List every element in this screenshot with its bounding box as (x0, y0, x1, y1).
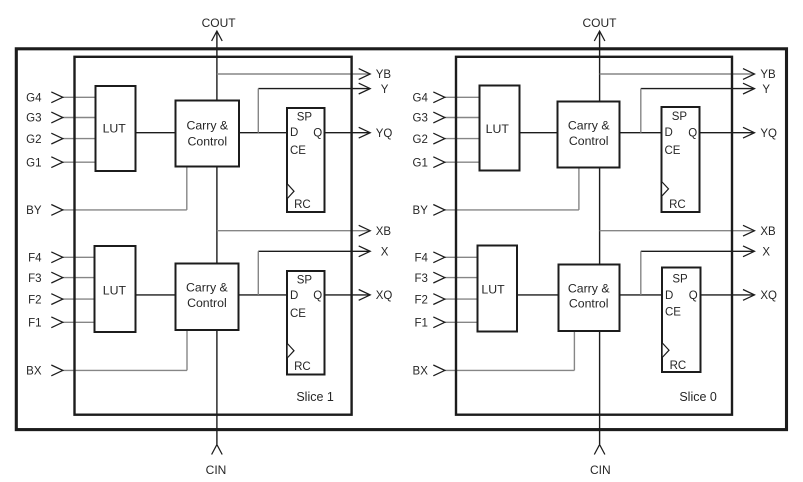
svg-text:D: D (665, 290, 673, 302)
svg-text:D: D (290, 290, 298, 302)
label F1 (Slice 0) (414, 318, 427, 330)
clock triangle (Slice 0 lower FF) (663, 343, 669, 357)
wire input F2 (Slice 1) (62, 298, 97, 300)
flip-flop lower (Slice 1) (287, 271, 325, 375)
wire Carry to FF D lower (Slice 0) (618, 294, 665, 296)
label F1 (Slice 1) (28, 318, 41, 330)
label COUT (Slice 0) (583, 16, 618, 30)
wire X horizontal (Slice 0) (641, 250, 754, 252)
svg-text:X: X (762, 247, 770, 259)
label G3 (Slice 1) (26, 113, 41, 125)
label CE pin (Slice 1 lower FF) (290, 308, 306, 320)
wire input G2 (Slice 1) (62, 138, 98, 140)
output arrow XB (Slice 0) (743, 225, 755, 236)
label RC pin (Slice 1 upper FF) (294, 199, 311, 211)
svg-text:Control: Control (569, 134, 609, 148)
label XQ (Slice 0) (760, 290, 777, 302)
svg-text:CE: CE (665, 145, 681, 157)
svg-text:Carry &: Carry & (186, 281, 228, 295)
svg-text:Q: Q (689, 290, 698, 302)
CIN arrowhead (Slice 1) (212, 445, 223, 455)
label Slice 0 (679, 390, 717, 404)
wire Y vertical (Slice 0) (640, 89, 642, 133)
svg-text:XQ: XQ (760, 290, 777, 302)
label LUT lower (Slice 1) (103, 284, 127, 298)
wire input BX horizontal (Slice 0) (444, 369, 575, 371)
svg-text:SP: SP (297, 111, 313, 123)
label G3 (Slice 0) (413, 113, 428, 125)
label Y (Slice 0) (762, 84, 770, 96)
wire FF Q to YQ (Slice 0) (698, 132, 755, 134)
label SP pin (Slice 1 lower FF) (297, 274, 313, 286)
svg-text:Slice 1: Slice 1 (296, 390, 334, 404)
label D pin (Slice 1 upper FF) (290, 127, 298, 139)
svg-text:G2: G2 (413, 134, 428, 146)
label D pin (Slice 0 upper FF) (665, 127, 673, 139)
input arrow G4 (Slice 0) (433, 92, 445, 103)
label X (Slice 1) (381, 247, 389, 259)
label CE pin (Slice 1 upper FF) (290, 145, 306, 157)
label LUT lower (Slice 0) (481, 283, 505, 297)
wire input G1 (Slice 0) (444, 161, 482, 163)
Carry &amp; Control lower (Slice 1) (176, 264, 239, 331)
svg-text:Q: Q (313, 290, 322, 302)
wire input G4 (Slice 0) (444, 96, 482, 98)
svg-text:RC: RC (669, 199, 686, 211)
label RC pin (Slice 0 upper FF) (669, 199, 686, 211)
output arrow Y (Slice 0) (743, 83, 755, 94)
output arrow X (Slice 1) (359, 246, 371, 257)
Carry &amp; Control upper (Slice 1) (176, 101, 240, 167)
flip-flop upper (Slice 0) (662, 107, 700, 212)
input arrow F3 (Slice 1) (51, 272, 63, 283)
wire input BY horizontal (Slice 1) (62, 209, 187, 211)
output arrow XB (Slice 1) (359, 225, 371, 236)
label Q pin (Slice 0 lower FF) (689, 290, 698, 302)
wire input BX vertical (Slice 1) (186, 329, 188, 370)
label Carry &amp; Control lower (Slice 1) (186, 281, 228, 310)
wire input F4 (Slice 0) (444, 256, 480, 258)
input arrow BY (Slice 0) (433, 205, 445, 216)
wire CIN carry chain bottom (Slice 1) (216, 330, 218, 444)
input arrow G4 (Slice 1) (51, 92, 63, 103)
label F3 (Slice 0) (414, 273, 427, 285)
label YQ (Slice 0) (760, 128, 777, 140)
wire input F3 (Slice 0) (444, 277, 480, 279)
label CE pin (Slice 0 upper FF) (665, 145, 681, 157)
input arrow BY (Slice 1) (51, 205, 63, 216)
svg-text:LUT: LUT (486, 122, 510, 136)
svg-text:XQ: XQ (376, 290, 393, 302)
Carry &amp; Control lower (Slice 0) (559, 265, 620, 332)
input arrow F2 (Slice 1) (51, 294, 63, 305)
input arrow BX (Slice 1) (51, 365, 63, 376)
label F2 (Slice 0) (414, 294, 427, 306)
svg-text:Y: Y (762, 84, 770, 96)
svg-text:G4: G4 (413, 93, 429, 105)
svg-text:COUT: COUT (583, 16, 618, 30)
label Slice 1 (296, 390, 334, 404)
svg-text:G1: G1 (413, 157, 428, 169)
input arrow BX (Slice 0) (433, 365, 445, 376)
LUT upper (Slice 1) (96, 86, 136, 171)
svg-text:G1: G1 (26, 157, 41, 169)
label G1 (Slice 1) (26, 157, 41, 169)
wire CIN carry chain bottom (Slice 0) (599, 330, 601, 444)
label BY (Slice 0) (413, 205, 429, 217)
flip-flop upper (Slice 1) (287, 108, 325, 212)
label CE pin (Slice 0 lower FF) (665, 307, 681, 319)
label Carry &amp; Control lower (Slice 0) (568, 282, 610, 311)
wire input BX vertical (Slice 0) (573, 330, 575, 370)
output arrow YB (Slice 0) (743, 69, 755, 80)
output arrow X (Slice 0) (743, 246, 755, 257)
svg-text:CE: CE (665, 307, 681, 319)
svg-text:F4: F4 (28, 253, 42, 265)
label F2 (Slice 1) (28, 294, 41, 306)
label SP pin (Slice 1 upper FF) (297, 111, 313, 123)
COUT arrow (Slice 1) (212, 31, 223, 41)
input arrow F1 (Slice 0) (433, 317, 445, 328)
wire LUT to Carry lower (Slice 0) (515, 294, 561, 296)
svg-text:Slice 0: Slice 0 (679, 390, 717, 404)
wire input G1 (Slice 1) (62, 161, 98, 163)
svg-text:F1: F1 (28, 318, 41, 330)
wire Carry to FF D upper (Slice 1) (237, 132, 289, 134)
svg-text:RC: RC (294, 361, 311, 373)
label BX (Slice 1) (26, 366, 42, 378)
svg-text:XB: XB (760, 226, 776, 238)
Slice 0 slice border (456, 57, 732, 415)
wire Y horizontal (Slice 1) (258, 88, 370, 90)
svg-text:CE: CE (290, 308, 306, 320)
wire COUT carry chain top (Slice 1) (216, 32, 218, 102)
LUT lower (Slice 0) (478, 246, 518, 332)
wire LUT to Carry lower (Slice 1) (134, 294, 178, 296)
label BX (Slice 0) (413, 366, 429, 378)
label F3 (Slice 1) (28, 273, 41, 285)
wire FF Q to YQ (Slice 1) (323, 132, 370, 134)
wire X vertical (Slice 0) (640, 251, 642, 295)
wire input G4 (Slice 1) (62, 96, 98, 98)
label XQ (Slice 1) (376, 290, 393, 302)
label D pin (Slice 1 lower FF) (290, 290, 298, 302)
label SP pin (Slice 0 upper FF) (672, 111, 688, 123)
svg-text:YB: YB (760, 69, 776, 81)
clock triangle (Slice 0 upper FF) (662, 182, 668, 196)
label LUT upper (Slice 0) (486, 122, 510, 136)
svg-text:LUT: LUT (103, 122, 127, 136)
wire input G3 (Slice 0) (444, 117, 482, 119)
Carry &amp; Control upper (Slice 0) (558, 102, 620, 168)
output arrow Y (Slice 1) (359, 83, 371, 94)
label LUT upper (Slice 1) (103, 122, 127, 136)
wire LUT to Carry upper (Slice 0) (518, 132, 560, 134)
wire COUT carry chain top (Slice 0) (599, 32, 601, 102)
label Carry &amp; Control upper (Slice 1) (186, 119, 228, 149)
input arrow G1 (Slice 1) (51, 157, 63, 168)
wire input F4 (Slice 1) (62, 256, 97, 258)
wire input BX horizontal (Slice 1) (62, 369, 187, 371)
input arrow F4 (Slice 1) (51, 252, 63, 263)
label Q pin (Slice 0 upper FF) (688, 127, 697, 139)
svg-text:LUT: LUT (481, 283, 505, 297)
wire YB (Slice 0) (600, 73, 754, 75)
input arrow G1 (Slice 0) (433, 157, 445, 168)
input arrow F3 (Slice 0) (433, 272, 445, 283)
svg-text:Control: Control (187, 134, 227, 148)
svg-text:RC: RC (294, 199, 311, 211)
svg-text:X: X (381, 247, 389, 259)
svg-text:BY: BY (26, 205, 42, 217)
label Q pin (Slice 1 lower FF) (313, 290, 322, 302)
svg-text:Q: Q (313, 127, 322, 139)
label G2 (Slice 0) (413, 134, 428, 146)
label F4 (Slice 1) (28, 253, 42, 265)
CLB outer border (16, 49, 786, 430)
output arrow YB (Slice 1) (359, 69, 371, 80)
label G1 (Slice 0) (413, 157, 428, 169)
svg-text:YQ: YQ (760, 128, 777, 140)
svg-text:G2: G2 (26, 134, 41, 146)
svg-text:Q: Q (688, 127, 697, 139)
wire input G2 (Slice 0) (444, 138, 482, 140)
svg-text:Y: Y (381, 84, 389, 96)
svg-text:F3: F3 (414, 273, 427, 285)
svg-text:F2: F2 (414, 294, 427, 306)
label BY (Slice 1) (26, 205, 42, 217)
output arrow XQ (Slice 1) (359, 290, 371, 301)
wire input F3 (Slice 1) (62, 277, 97, 279)
wire Y horizontal (Slice 0) (641, 88, 754, 90)
wire Carry to FF D upper (Slice 0) (618, 132, 664, 134)
wire Y vertical (Slice 1) (257, 89, 259, 133)
label XB (Slice 1) (376, 226, 392, 238)
svg-text:F1: F1 (414, 318, 427, 330)
label Q pin (Slice 1 upper FF) (313, 127, 322, 139)
svg-text:Control: Control (569, 297, 609, 311)
svg-text:BX: BX (413, 366, 429, 378)
wire X vertical (Slice 1) (257, 251, 259, 295)
input arrow F1 (Slice 1) (51, 317, 63, 328)
LUT upper (Slice 0) (480, 86, 520, 171)
input arrow G2 (Slice 1) (51, 133, 63, 144)
input arrow G3 (Slice 1) (51, 112, 63, 123)
input arrow F4 (Slice 0) (433, 252, 445, 263)
svg-text:Carry &: Carry & (186, 119, 228, 133)
wire carry chain between Carry blocks (Slice 0) (599, 167, 601, 265)
svg-text:LUT: LUT (103, 284, 127, 298)
label YB (Slice 1) (376, 69, 392, 81)
label COUT (Slice 1) (202, 16, 237, 30)
label CIN (Slice 1) (206, 463, 227, 477)
wire input BY vertical (Slice 1) (186, 166, 188, 210)
wire Carry to FF D lower (Slice 1) (237, 294, 290, 296)
svg-text:G3: G3 (413, 113, 428, 125)
wire LUT to Carry upper (Slice 1) (134, 132, 178, 134)
label G2 (Slice 1) (26, 134, 41, 146)
svg-text:Carry &: Carry & (568, 282, 610, 296)
wire input F2 (Slice 0) (444, 298, 480, 300)
input arrow G3 (Slice 0) (433, 112, 445, 123)
svg-text:F2: F2 (28, 294, 41, 306)
svg-text:F4: F4 (414, 253, 428, 265)
flip-flop lower (Slice 0) (662, 268, 701, 373)
svg-text:BY: BY (413, 205, 429, 217)
label G4 (Slice 0) (413, 93, 429, 105)
label Y (Slice 1) (381, 84, 389, 96)
label X (Slice 0) (762, 247, 770, 259)
output arrow YQ (Slice 1) (359, 127, 371, 138)
svg-text:Control: Control (187, 296, 227, 310)
output arrow YQ (Slice 0) (743, 127, 755, 138)
clock triangle (Slice 1 upper FF) (288, 184, 294, 198)
COUT arrow (Slice 0) (594, 31, 605, 41)
svg-text:COUT: COUT (202, 16, 237, 30)
svg-text:D: D (290, 127, 298, 139)
wire X horizontal (Slice 1) (258, 250, 370, 252)
label Carry &amp; Control upper (Slice 0) (568, 118, 610, 148)
wire XB (Slice 1) (217, 230, 370, 232)
label CIN (Slice 0) (590, 463, 611, 477)
svg-text:YQ: YQ (376, 128, 393, 140)
wire input F1 (Slice 1) (62, 321, 97, 323)
label G4 (Slice 1) (26, 93, 42, 105)
svg-text:SP: SP (672, 274, 688, 286)
label YB (Slice 0) (760, 69, 776, 81)
input arrow G2 (Slice 0) (433, 133, 445, 144)
svg-text:G4: G4 (26, 93, 42, 105)
label YQ (Slice 1) (376, 128, 393, 140)
wire carry chain between Carry blocks (Slice 1) (216, 167, 218, 265)
svg-text:CIN: CIN (206, 463, 227, 477)
CIN arrowhead (Slice 0) (594, 445, 605, 455)
label RC pin (Slice 1 lower FF) (294, 361, 311, 373)
svg-text:G3: G3 (26, 113, 41, 125)
wire XB (Slice 0) (600, 230, 754, 232)
svg-text:SP: SP (672, 111, 688, 123)
label RC pin (Slice 0 lower FF) (670, 360, 687, 372)
svg-text:F3: F3 (28, 273, 41, 285)
wire YB (Slice 1) (217, 73, 370, 75)
svg-text:BX: BX (26, 366, 42, 378)
svg-text:YB: YB (376, 69, 392, 81)
wire FF Q to XQ (Slice 0) (699, 294, 755, 296)
LUT lower (Slice 1) (95, 246, 136, 332)
svg-text:XB: XB (376, 226, 392, 238)
svg-text:CE: CE (290, 145, 306, 157)
wire input F1 (Slice 0) (444, 321, 480, 323)
clock triangle (Slice 1 lower FF) (288, 344, 294, 358)
svg-text:RC: RC (670, 360, 687, 372)
label F4 (Slice 0) (414, 253, 428, 265)
svg-text:D: D (665, 127, 673, 139)
Slice 1 slice border (75, 57, 352, 415)
svg-text:Carry &: Carry & (568, 118, 610, 132)
svg-text:CIN: CIN (590, 463, 611, 477)
label XB (Slice 0) (760, 226, 776, 238)
output arrow XQ (Slice 0) (743, 290, 755, 301)
wire input G3 (Slice 1) (62, 117, 98, 119)
wire FF Q to XQ (Slice 1) (323, 294, 370, 296)
wire input BY horizontal (Slice 0) (444, 209, 579, 211)
wire input BY vertical (Slice 0) (578, 167, 580, 210)
label D pin (Slice 0 lower FF) (665, 290, 673, 302)
label SP pin (Slice 0 lower FF) (672, 274, 688, 286)
svg-text:SP: SP (297, 274, 313, 286)
input arrow F2 (Slice 0) (433, 294, 445, 305)
